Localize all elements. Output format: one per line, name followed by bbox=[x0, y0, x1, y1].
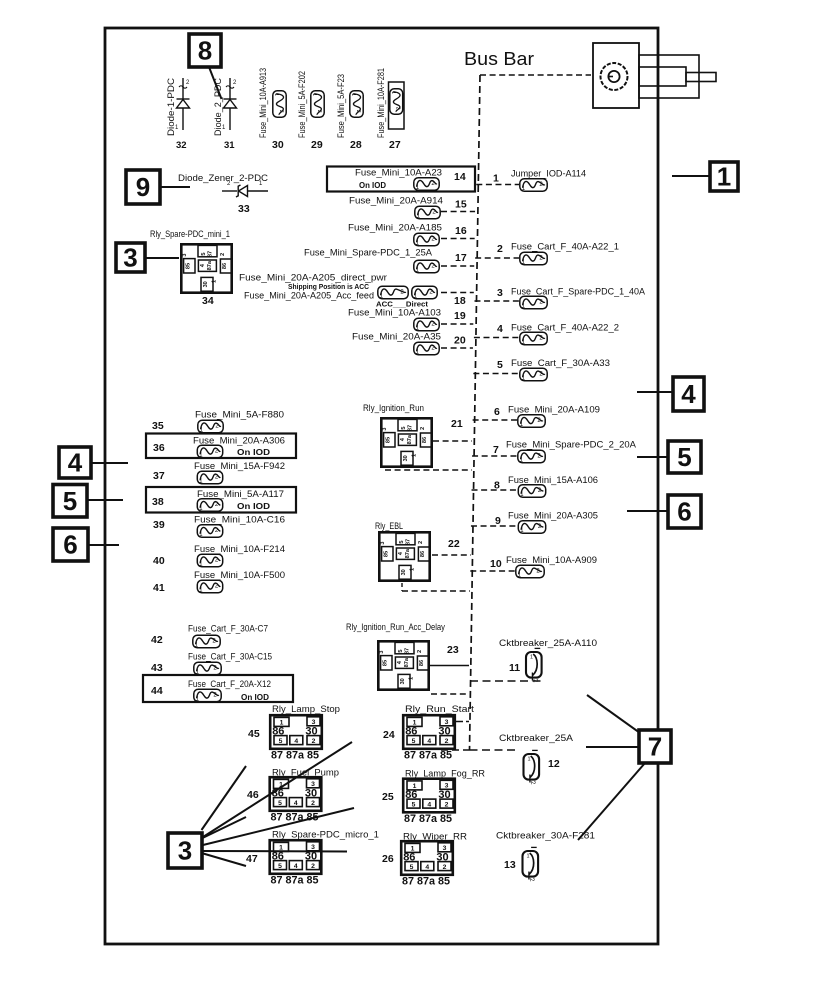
fuse Fuse_Mini_10A-A23 (item 14) bbox=[414, 178, 439, 191]
svg-text:Rly_Run_Start: Rly_Run_Start bbox=[405, 704, 475, 714]
svg-text:Fuse_Cart_F_30A-C7: Fuse_Cart_F_30A-C7 bbox=[188, 624, 268, 634]
svg-text:Rly_Ignition_Run_Acc_Delay: Rly_Ignition_Run_Acc_Delay bbox=[346, 622, 445, 632]
svg-text:Fuse_Mini_Spare-PDC_1_25A: Fuse_Mini_Spare-PDC_1_25A bbox=[304, 248, 432, 258]
callout 3 leader line to relays 45-47 and 24-26-6 bbox=[202, 853, 247, 866]
fuse 27 holder outline bbox=[389, 82, 405, 129]
svg-text:2: 2 bbox=[445, 738, 449, 745]
svg-text:86: 86 bbox=[272, 851, 284, 863]
svg-text:Fuse_Mini_20A-A305: Fuse_Mini_20A-A305 bbox=[508, 511, 598, 521]
callout 5 leader line left-5-1 bbox=[87, 499, 123, 501]
wire relay 22 bottom pin to bus (dashed) bbox=[402, 590, 470, 592]
bus bar stud terminal bbox=[593, 43, 639, 108]
svg-text:86: 86 bbox=[420, 551, 426, 557]
fuse Fuse_Cart_F_20A-X12 (item 44) bbox=[194, 689, 221, 702]
svg-text:33: 33 bbox=[238, 203, 250, 215]
svg-text:87: 87 bbox=[208, 251, 214, 257]
svg-text:20: 20 bbox=[454, 335, 466, 347]
svg-text:30: 30 bbox=[401, 569, 407, 575]
svg-text:30: 30 bbox=[305, 788, 317, 800]
svg-text:30: 30 bbox=[403, 455, 409, 461]
callout 3 leader line to relays 45-47 and 24-26-5 bbox=[203, 850, 347, 853]
fuse Fuse_Mini_5A-A117 (item 38) bbox=[197, 499, 222, 512]
svg-text:2: 2 bbox=[418, 541, 424, 544]
wire stub from bus to fuse 2 (dashed) bbox=[475, 257, 519, 259]
svg-text:3: 3 bbox=[497, 287, 503, 299]
svg-text:Fuse_Mini_20A-A185: Fuse_Mini_20A-A185 bbox=[348, 223, 442, 233]
callout 3 leader line to relay 34-1 bbox=[145, 257, 179, 259]
fuse Fuse_Mini_10A-A909 (item 10) bbox=[516, 565, 544, 578]
fuse Fuse_Mini_20A-A35 (item 20) bbox=[414, 342, 439, 355]
svg-text:1: 1 bbox=[410, 568, 416, 571]
svg-text:Fuse_Mini_10A-F500: Fuse_Mini_10A-F500 bbox=[194, 570, 285, 580]
svg-text:86: 86 bbox=[422, 437, 428, 443]
fuse 14 group box (On IOD) bbox=[327, 167, 475, 192]
svg-text:Fuse_Mini_20A-A205_Acc_feed: Fuse_Mini_20A-A205_Acc_feed bbox=[244, 291, 374, 301]
svg-text:Cktbreaker_25A: Cktbreaker_25A bbox=[499, 733, 573, 743]
svg-text:22: 22 bbox=[448, 538, 460, 550]
callout 9 leader line to zener diode-1 bbox=[160, 186, 190, 188]
svg-text:86: 86 bbox=[405, 726, 417, 738]
svg-text:3: 3 bbox=[382, 427, 388, 430]
relay Rly_Run_Start (item 24) bbox=[403, 715, 455, 761]
svg-text:Fuse_Mini_20A-A306: Fuse_Mini_20A-A306 bbox=[193, 436, 285, 446]
callout 1 leader line right-1-1 bbox=[672, 175, 710, 177]
fuse Fuse_Mini_20A-A205_direct_pwr (item 18 right) bbox=[412, 286, 437, 299]
relay Rly_Ignition_Run_Acc_Delay (item 23) bbox=[378, 641, 429, 689]
svg-text:Rly_Ignition_Run: Rly_Ignition_Run bbox=[363, 403, 424, 413]
callout box 5 (left-5) bbox=[53, 485, 87, 518]
callout 3 leader line to relays 45-47 and 24-26-4 bbox=[203, 808, 354, 845]
svg-text:Jumper_IOD-A114: Jumper_IOD-A114 bbox=[511, 169, 586, 179]
svg-text:Fuse_Mini_20A-A109: Fuse_Mini_20A-A109 bbox=[508, 405, 600, 415]
wire stub from bus to fuse 10 (dashed) bbox=[470, 570, 515, 572]
wire Bus Bar label to stud (dashed) bbox=[480, 74, 591, 76]
fuse Fuse_Cart_F_40A-A22_1 (item 2) bbox=[520, 252, 547, 265]
svg-text:5: 5 bbox=[278, 800, 282, 807]
svg-text:On IOD: On IOD bbox=[237, 502, 270, 511]
svg-text:4: 4 bbox=[681, 379, 696, 409]
svg-text:Fuse_Mini_20A-A914: Fuse_Mini_20A-A914 bbox=[349, 196, 443, 206]
svg-text:3: 3 bbox=[182, 253, 188, 256]
svg-text:30: 30 bbox=[203, 281, 209, 287]
svg-text:Fuse_Cart_F_20A-X12: Fuse_Cart_F_20A-X12 bbox=[188, 679, 271, 689]
svg-text:87: 87 bbox=[405, 648, 411, 654]
svg-text:2: 2 bbox=[443, 864, 447, 871]
svg-text:87: 87 bbox=[406, 539, 412, 545]
svg-text:4: 4 bbox=[294, 863, 298, 870]
callout box 4 (right-4) bbox=[673, 377, 704, 411]
svg-text:5: 5 bbox=[278, 863, 282, 870]
wire stub from bus to fuse 6 (dashed) bbox=[473, 419, 517, 421]
svg-text:Fuse_Cart_F_30A-C15: Fuse_Cart_F_30A-C15 bbox=[188, 652, 272, 662]
relay Rly_Lamp_Stop (item 45) bbox=[270, 715, 322, 761]
svg-text:9: 9 bbox=[495, 515, 501, 527]
diagram frame border bbox=[105, 28, 658, 944]
svg-text:26: 26 bbox=[382, 853, 394, 865]
svg-text:4: 4 bbox=[425, 864, 429, 871]
fuse Fuse_Mini_10A-A913 (item 30) bbox=[273, 91, 286, 117]
svg-text:5: 5 bbox=[412, 801, 416, 808]
svg-text:24: 24 bbox=[383, 729, 395, 741]
svg-text:Fuse_Mini_10A-C16: Fuse_Mini_10A-C16 bbox=[194, 515, 285, 525]
svg-text:6: 6 bbox=[677, 497, 691, 527]
svg-text:1: 1 bbox=[412, 454, 418, 457]
svg-text:Fuse_Mini_10A-F281: Fuse_Mini_10A-F281 bbox=[376, 68, 386, 138]
svg-text:30: 30 bbox=[400, 678, 406, 684]
svg-text:27: 27 bbox=[389, 139, 401, 151]
callout box 6 (right-6) bbox=[668, 495, 701, 528]
svg-text:Fuse_Mini_5A-A117: Fuse_Mini_5A-A117 bbox=[197, 489, 284, 499]
svg-text:2: 2 bbox=[311, 800, 315, 807]
wire stub from fuse 19 to bus (dashed) bbox=[441, 323, 473, 325]
fuse Fuse_Mini_15A-A106 (item 8) bbox=[518, 485, 545, 498]
wire relay 24 pin 3 lead bbox=[456, 721, 459, 723]
wire relay 21 bottom pin to bus (dashed) bbox=[385, 469, 472, 471]
callout 7 leader line to breakers 11-13-3 bbox=[578, 763, 645, 840]
bus bar terminal blade (nested rectangles) bbox=[639, 55, 716, 98]
svg-text:5: 5 bbox=[412, 738, 416, 745]
svg-text:45: 45 bbox=[248, 728, 260, 740]
svg-text:37: 37 bbox=[153, 470, 165, 482]
svg-text:14: 14 bbox=[454, 171, 466, 183]
svg-text:Fuse_Mini_5A-F23: Fuse_Mini_5A-F23 bbox=[336, 74, 346, 138]
svg-text:31: 31 bbox=[224, 140, 235, 151]
relay Rly_Wiper_RR (item 26) bbox=[401, 841, 453, 887]
svg-text:18: 18 bbox=[454, 295, 466, 307]
wire stub from bus to fuse 8 (dashed) bbox=[472, 489, 518, 491]
svg-text:42: 42 bbox=[151, 634, 163, 646]
fuse 44 group box (On IOD) bbox=[143, 675, 293, 702]
zener diode Diode_Zener_2-PDC (item 33) bbox=[222, 181, 268, 197]
fuse Fuse_Mini_10A-F281 (item 27) bbox=[390, 89, 403, 114]
callout box 3 (to relays 45-47 and 24-26) bbox=[168, 833, 202, 868]
svg-text:30: 30 bbox=[305, 726, 317, 738]
svg-text:4: 4 bbox=[497, 323, 503, 335]
svg-text:Fuse_Mini_10A-F214: Fuse_Mini_10A-F214 bbox=[194, 544, 285, 554]
svg-text:Fuse_Cart_F_Spare-PDC_1_40A: Fuse_Cart_F_Spare-PDC_1_40A bbox=[511, 287, 645, 297]
fuse Fuse_Mini_20A-A306 (item 36) bbox=[197, 445, 222, 458]
svg-text:38: 38 bbox=[152, 496, 164, 508]
wire relay 23 bottom pin to bus (dashed) bbox=[431, 693, 467, 695]
svg-text:87 87a 85: 87 87a 85 bbox=[404, 813, 452, 825]
svg-text:6: 6 bbox=[63, 530, 77, 560]
svg-text:16: 16 bbox=[455, 225, 467, 237]
relay Rly_Spare-PDC_micro_1 (item 47) bbox=[270, 840, 322, 886]
svg-text:5: 5 bbox=[201, 252, 207, 255]
fuse Fuse_Mini_10A-F500 (item 41) bbox=[197, 580, 222, 593]
svg-text:On IOD: On IOD bbox=[241, 693, 269, 702]
relay Rly_Ignition_Run (item 21) bbox=[381, 418, 432, 466]
svg-text:34: 34 bbox=[202, 295, 214, 307]
svg-text:4: 4 bbox=[427, 801, 431, 808]
svg-text:5: 5 bbox=[63, 486, 77, 516]
svg-text:Fuse_Cart_F_40A-A22_1: Fuse_Cart_F_40A-A22_1 bbox=[511, 242, 619, 252]
svg-text:5: 5 bbox=[677, 442, 691, 472]
svg-text:1: 1 bbox=[311, 93, 317, 96]
fuse Fuse_Mini_5A-F880 (item 35) bbox=[198, 420, 223, 433]
svg-text:9: 9 bbox=[136, 172, 150, 202]
fuse Fuse_Cart_F_Spare-PDC_1_40A (item 3) bbox=[520, 296, 547, 309]
callout 6 leader line right-6-1 bbox=[627, 510, 668, 512]
svg-text:10: 10 bbox=[490, 558, 502, 570]
fuse Fuse_Mini_15A-F942 (item 37) bbox=[197, 471, 222, 484]
svg-text:1: 1 bbox=[493, 173, 499, 185]
circuit breaker Cktbreaker_25A (item 12) bbox=[524, 750, 540, 785]
svg-text:Fuse_Mini_5A-F880: Fuse_Mini_5A-F880 bbox=[195, 410, 284, 420]
diode Diode-1-PDC D1 bbox=[175, 78, 190, 131]
svg-text:Fuse_Mini_15A-F942: Fuse_Mini_15A-F942 bbox=[194, 461, 285, 471]
wire stub from fuse 16 to bus (dashed) bbox=[441, 238, 475, 240]
fuse Fuse_Mini_20A-A305 (item 9) bbox=[518, 521, 545, 534]
svg-text:7: 7 bbox=[648, 732, 662, 762]
svg-text:3: 3 bbox=[379, 650, 385, 653]
fuse Fuse_Mini_Spare-PDC_2_20A (item 7) bbox=[518, 450, 545, 463]
callout 3 leader line to relays 45-47 and 24-26-1 bbox=[202, 766, 247, 830]
wire stub from bus to fuse 9 (dashed) bbox=[471, 525, 518, 527]
svg-text:Rly_Spare-PDC_micro_1: Rly_Spare-PDC_micro_1 bbox=[272, 830, 379, 840]
callout box 4 (left-4) bbox=[59, 447, 91, 478]
svg-text:5: 5 bbox=[398, 649, 404, 652]
fuse Fuse_Mini_5A-F202 (item 29) bbox=[311, 91, 324, 117]
svg-text:Bus Bar: Bus Bar bbox=[464, 49, 534, 69]
svg-text:2: 2 bbox=[395, 107, 401, 110]
wire stub from fuse 17 to bus (dashed) bbox=[441, 265, 474, 267]
wire stub from bus to breaker 11 (dashed) bbox=[470, 680, 543, 682]
svg-text:Rly_Lamp_Stop: Rly_Lamp_Stop bbox=[272, 704, 340, 714]
svg-text:86: 86 bbox=[419, 660, 425, 666]
svg-text:1: 1 bbox=[530, 655, 533, 661]
fuse Fuse_Mini_5A-F23 (item 28) bbox=[350, 91, 363, 117]
svg-text:17: 17 bbox=[455, 252, 467, 264]
svg-text:Rly_Spare-PDC_mini_1: Rly_Spare-PDC_mini_1 bbox=[150, 229, 230, 239]
wire stub from bus to fuse 5 (dashed) bbox=[473, 373, 519, 375]
svg-text:30: 30 bbox=[436, 852, 448, 864]
callout box 6 (left-6) bbox=[53, 528, 88, 561]
svg-text:2: 2 bbox=[316, 110, 322, 113]
svg-text:Cktbreaker_25A-A110: Cktbreaker_25A-A110 bbox=[499, 638, 597, 648]
svg-text:4: 4 bbox=[294, 800, 298, 807]
wire stub from bus to fuse 7 (dashed) bbox=[472, 455, 517, 457]
svg-text:2: 2 bbox=[445, 801, 449, 808]
svg-text:2: 2 bbox=[220, 253, 226, 256]
circuit breaker Cktbreaker_30A-F281 (item 13) bbox=[523, 847, 539, 882]
svg-text:44: 44 bbox=[151, 685, 163, 697]
svg-text:86: 86 bbox=[405, 789, 417, 801]
svg-text:1: 1 bbox=[409, 677, 415, 680]
svg-text:3: 3 bbox=[123, 243, 137, 273]
svg-text:Diode_2_PDC: Diode_2_PDC bbox=[213, 78, 223, 136]
fuse Fuse_Mini_Spare-PDC_1_25A (item 17) bbox=[414, 260, 439, 273]
svg-text:13: 13 bbox=[504, 859, 516, 871]
svg-text:87a: 87a bbox=[405, 548, 411, 558]
svg-text:87 87a 85: 87 87a 85 bbox=[404, 750, 452, 762]
svg-text:30: 30 bbox=[438, 726, 450, 738]
svg-text:Fuse_Mini_Spare-PDC_2_20A: Fuse_Mini_Spare-PDC_2_20A bbox=[506, 440, 636, 450]
relay Rly_Fuel_Pump (item 46) bbox=[270, 777, 322, 823]
svg-text:30: 30 bbox=[438, 789, 450, 801]
svg-text:87a: 87a bbox=[207, 260, 213, 270]
svg-text:87: 87 bbox=[408, 425, 414, 431]
svg-text:2: 2 bbox=[420, 427, 426, 430]
svg-text:5: 5 bbox=[399, 540, 405, 543]
wire relay 22 pin to bus (dashed) bbox=[432, 554, 471, 556]
svg-text:Fuse_Cart_F_30A-A33: Fuse_Cart_F_30A-A33 bbox=[511, 358, 610, 368]
svg-text:2: 2 bbox=[278, 110, 284, 113]
svg-text:86: 86 bbox=[403, 852, 415, 864]
svg-text:2: 2 bbox=[312, 738, 316, 745]
callout box 8 (to diode 2) bbox=[189, 34, 221, 67]
svg-text:87 87a 85: 87 87a 85 bbox=[271, 875, 319, 887]
fuse 38 group box (On IOD) bbox=[146, 487, 296, 513]
svg-text:Rly_EBL: Rly_EBL bbox=[375, 521, 403, 531]
svg-text:Fuse_Mini_10A-A103: Fuse_Mini_10A-A103 bbox=[348, 308, 441, 318]
svg-text:6: 6 bbox=[494, 406, 500, 418]
wire stub from bus to fuse 1 (dashed) bbox=[476, 184, 519, 186]
svg-text:29: 29 bbox=[311, 139, 323, 151]
svg-text:15: 15 bbox=[455, 199, 467, 211]
callout box 1 (right-1) bbox=[710, 162, 738, 192]
svg-text:87 87a 85: 87 87a 85 bbox=[271, 750, 319, 762]
svg-text:1: 1 bbox=[527, 854, 530, 860]
svg-text:On IOD: On IOD bbox=[237, 448, 270, 457]
svg-text:3: 3 bbox=[178, 836, 192, 866]
svg-text:8: 8 bbox=[494, 480, 500, 492]
callout 3 leader line to relays 45-47 and 24-26-3 bbox=[203, 742, 352, 837]
svg-text:4: 4 bbox=[427, 738, 431, 745]
svg-text:4: 4 bbox=[294, 738, 298, 745]
svg-text:1: 1 bbox=[273, 93, 279, 96]
svg-text:30: 30 bbox=[305, 851, 317, 863]
svg-text:Fuse_Mini_20A-A205_direct_pwr: Fuse_Mini_20A-A205_direct_pwr bbox=[239, 273, 387, 283]
svg-text:85: 85 bbox=[383, 551, 389, 557]
svg-text:On IOD: On IOD bbox=[359, 181, 386, 190]
wire relay 24 pin 3 to bus (dashed) bbox=[459, 721, 469, 723]
svg-text:4: 4 bbox=[68, 448, 83, 478]
svg-text:Diode_Zener_2-PDC: Diode_Zener_2-PDC bbox=[178, 173, 269, 183]
fuse Fuse_Mini_20A-A109 (item 6) bbox=[518, 415, 545, 428]
svg-text:2: 2 bbox=[311, 863, 315, 870]
svg-text:Fuse_Cart_F_40A-A22_2: Fuse_Cart_F_40A-A22_2 bbox=[511, 323, 619, 333]
svg-text:47: 47 bbox=[246, 853, 258, 865]
callout box 5 (right-5) bbox=[668, 441, 701, 473]
fuse Fuse_Cart_F_30A-A33 (item 5) bbox=[520, 368, 547, 381]
svg-text:39: 39 bbox=[153, 519, 165, 531]
svg-text:1: 1 bbox=[717, 162, 731, 192]
fuse 36 group box (On IOD) bbox=[146, 434, 296, 459]
fuse Jumper_IOD-A114 (item 1) bbox=[520, 179, 547, 192]
wire bus corner to breaker 12 bbox=[470, 749, 519, 751]
svg-text:85: 85 bbox=[185, 263, 191, 269]
fuse Fuse_Mini_10A-C16 (item 39) bbox=[197, 525, 222, 538]
callout box 9 (to zener diode) bbox=[126, 170, 160, 204]
svg-text:Fuse_Mini_10A-A23: Fuse_Mini_10A-A23 bbox=[355, 168, 442, 178]
svg-text:5: 5 bbox=[497, 359, 503, 371]
fuse Fuse_Cart_F_30A-C7 (item 42) bbox=[193, 635, 220, 648]
svg-text:Fuse_Mini_10A-A913: Fuse_Mini_10A-A913 bbox=[258, 68, 268, 138]
svg-text:1: 1 bbox=[350, 93, 356, 96]
wire relay 21 pin to bus (dashed) bbox=[433, 440, 472, 442]
wire stub from bus to fuse 4 (dashed) bbox=[474, 337, 519, 339]
callout box 7 (to breakers 11-13) bbox=[639, 730, 671, 763]
svg-text:28: 28 bbox=[350, 139, 362, 151]
fuse Fuse_Cart_F_40A-A22_2 (item 4) bbox=[520, 332, 547, 345]
svg-text:Fuse_Mini_10A-A909: Fuse_Mini_10A-A909 bbox=[506, 555, 597, 565]
wire relay 24 bottom area to bus corner (dashed) bbox=[441, 749, 470, 751]
svg-text:87a: 87a bbox=[404, 657, 410, 667]
callout 5 leader line right-5-1 bbox=[637, 456, 668, 458]
svg-text:2: 2 bbox=[355, 110, 361, 113]
svg-text:46: 46 bbox=[247, 789, 259, 801]
circuit breaker Cktbreaker_25A-A110 (item 11) bbox=[526, 648, 542, 683]
svg-text:87a: 87a bbox=[407, 434, 413, 444]
relay Rly_Spare-PDC_mini_1 (item 34) bbox=[181, 244, 232, 292]
fuse Fuse_Mini_20A-A914 (item 15) bbox=[415, 206, 440, 219]
svg-text:41: 41 bbox=[153, 582, 165, 594]
svg-text:12: 12 bbox=[548, 758, 560, 770]
svg-text:7: 7 bbox=[493, 444, 499, 456]
svg-text:5: 5 bbox=[279, 738, 283, 745]
callout box 3 (to relay 34) bbox=[116, 243, 145, 273]
callout 8 leader line to diode 2-1 bbox=[209, 67, 222, 99]
svg-text:21: 21 bbox=[451, 418, 463, 430]
svg-text:85: 85 bbox=[382, 660, 388, 666]
relay Rly_Lamp_Fog_RR (item 25) bbox=[403, 779, 455, 825]
svg-text:1: 1 bbox=[528, 757, 531, 763]
svg-text:35: 35 bbox=[152, 420, 164, 432]
svg-text:5: 5 bbox=[410, 864, 414, 871]
wire main dashed bus (vertical) (dashed) bbox=[470, 75, 481, 750]
svg-text:11: 11 bbox=[509, 662, 520, 674]
svg-text:Fuse_Mini_5A-F202: Fuse_Mini_5A-F202 bbox=[297, 71, 307, 138]
fuse Fuse_Mini_10A-F214 (item 40) bbox=[197, 554, 222, 567]
svg-text:Fuse_Mini_20A-A35: Fuse_Mini_20A-A35 bbox=[352, 332, 441, 342]
svg-text:30: 30 bbox=[272, 139, 284, 151]
svg-text:2: 2 bbox=[417, 650, 423, 653]
fuse Fuse_Mini_10A-A103 (item 19) bbox=[414, 318, 439, 331]
svg-text:1: 1 bbox=[212, 280, 218, 283]
svg-text:25: 25 bbox=[382, 791, 394, 803]
svg-text:2: 2 bbox=[497, 243, 503, 255]
diode Diode_2_PDC D2 bbox=[222, 78, 237, 131]
callout 4 leader line right-4-1 bbox=[637, 391, 673, 393]
callout 7 leader line to breakers 11-13-2 bbox=[586, 746, 640, 748]
svg-text:87 87a 85: 87 87a 85 bbox=[402, 876, 450, 888]
svg-text:Diode-1-PDC: Diode-1-PDC bbox=[166, 77, 176, 136]
svg-text:1: 1 bbox=[390, 91, 396, 94]
wire stub from fuse 15 to bus (dashed) bbox=[441, 211, 475, 213]
svg-text:36: 36 bbox=[153, 442, 165, 454]
fuse Fuse_Cart_F_30A-C15 (item 43) bbox=[194, 662, 221, 675]
callout 3 leader line to relays 45-47 and 24-26-2 bbox=[203, 817, 247, 838]
svg-text:23: 23 bbox=[447, 644, 459, 656]
relay Rly_EBL (item 22) bbox=[379, 532, 430, 580]
wire stub from fuse 20 to bus (dashed) bbox=[441, 347, 473, 349]
svg-text:86: 86 bbox=[222, 263, 228, 269]
callout 4 leader line left-4-1 bbox=[91, 462, 128, 464]
svg-text:32: 32 bbox=[176, 140, 187, 151]
svg-text:Rly_Lamp_Fog_RR: Rly_Lamp_Fog_RR bbox=[405, 769, 485, 779]
wire stub from fuse 18 to bus (dashed) bbox=[441, 292, 474, 294]
svg-text:8: 8 bbox=[198, 36, 212, 66]
wire stub from bus to fuse 3 (dashed) bbox=[474, 300, 519, 302]
svg-text:85: 85 bbox=[385, 437, 391, 443]
svg-text:3: 3 bbox=[380, 541, 386, 544]
fuse Fuse_Mini_20A-A185 (item 16) bbox=[414, 233, 439, 246]
fuse Fuse_Mini_20A-A205_Acc_feed (item 18 left) bbox=[378, 286, 408, 299]
svg-text:43: 43 bbox=[151, 662, 163, 674]
svg-text:Fuse_Mini_15A-A106: Fuse_Mini_15A-A106 bbox=[508, 475, 598, 485]
wire relay 23 pin to bus bbox=[430, 665, 469, 667]
